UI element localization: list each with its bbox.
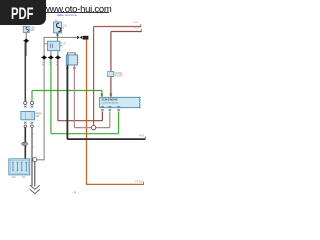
fuse F1 (left, below PDF badge) bbox=[23, 26, 29, 32]
wire: green vertical from dot B down, corner right to ECU pin bbox=[51, 59, 119, 134]
wire: gray riser from junction dot up bbox=[43, 37, 45, 58]
connector pin-pair mark (left col above box B1) bbox=[24, 105, 27, 107]
pin ticks below junction dots bbox=[42, 63, 57, 65]
wire: green horizontal STA line bbox=[32, 90, 102, 92]
svg-text:- 4 -: - 4 - bbox=[72, 191, 78, 195]
svg-text:ST SW: ST SW bbox=[135, 181, 143, 184]
wire: orange long vertical and bottom horizontal with end terminal bbox=[87, 40, 144, 185]
terminal circle left column bbox=[24, 101, 27, 104]
wire: maroon M1 top horizontal with left corner down to junction circle bbox=[94, 27, 141, 126]
PDF badge bbox=[0, 0, 46, 25]
junction dot (diamond) column B green bbox=[48, 55, 54, 60]
header underline bbox=[45, 12, 109, 13]
wire: black from box B3 left pin down, corner right = ground bus bbox=[67, 65, 145, 139]
svg-text:ST: ST bbox=[63, 43, 67, 46]
wire: black column below box B1 to connector box B2 bbox=[24, 128, 26, 159]
connector pin-pair marks at ECU bottom bbox=[101, 109, 104, 111]
junction circle on maroon/pink line bbox=[91, 125, 95, 129]
wire: relay left stub bbox=[44, 43, 48, 45]
splice oval on black column bbox=[22, 142, 28, 145]
svg-text:W-B: W-B bbox=[139, 134, 144, 137]
connector pin-pair marks at ECU top bbox=[101, 93, 104, 95]
wire: gray ground drop from dot down to ground horizontal bbox=[35, 58, 44, 160]
black bus end tick bbox=[144, 137, 146, 140]
pin ticks on dark column bbox=[32, 134, 34, 147]
svg-text:1J 4: 1J 4 bbox=[133, 21, 138, 24]
wire: green right corner down to ECU top bbox=[101, 91, 103, 98]
wire: maroon M2 horizontal, corner down at x=110.9 to noise filter and ECU bbox=[111, 32, 141, 72]
wire: gray horizontal from riser to connector bowtie bbox=[44, 36, 78, 38]
wire: green left corner down to terminal circle bbox=[31, 91, 33, 102]
svg-text:FILTER: FILTER bbox=[115, 74, 123, 77]
wire: maroon column C down, corner right, up into ECU pin 1 bbox=[58, 59, 103, 121]
connector pin-pair mark on stub bbox=[56, 34, 59, 36]
junction dot (diamond) column C maroon bbox=[55, 55, 61, 60]
svg-text:CONT MODULE): CONT MODULE) bbox=[102, 102, 119, 104]
svg-text:EFI: EFI bbox=[30, 28, 34, 32]
svg-text:C12: C12 bbox=[12, 177, 17, 179]
wire: stub below fuse F1 bbox=[25, 33, 27, 57]
connector box B2 (bottom left multi-pin) bbox=[9, 159, 30, 175]
svg-text:1H 5: 1H 5 bbox=[134, 26, 140, 29]
ECU box (engine control module) bbox=[100, 97, 141, 107]
orange end tick bbox=[143, 182, 145, 185]
header small blue subtitle bbox=[57, 13, 77, 17]
svg-text:ECM (ENGINE: ECM (ENGINE bbox=[102, 99, 118, 102]
wire: pink from box B3 right pin down, corner right to junction circle and ECU pin 2 bbox=[74, 65, 109, 128]
component box B3 (ignition switch block) bbox=[66, 55, 79, 65]
wire: dark column right of it down to ground arrow bbox=[31, 128, 33, 187]
wire: relay bottom pins to dots bbox=[51, 51, 58, 56]
wire: stub fuse F2 to relay bbox=[57, 33, 59, 41]
connector pin-pair marks below box B1 bbox=[24, 122, 27, 124]
wire: bridge over box B3 bbox=[67, 53, 75, 55]
wire: M2 continues below filter to ECU top bbox=[110, 77, 112, 97]
connector pin-pair marks below box B3 bbox=[66, 67, 69, 69]
relay right pin dashes bbox=[60, 43, 62, 46]
ground node circle bbox=[33, 158, 37, 162]
ground arrow (double chevron) bbox=[30, 185, 40, 193]
component box B1 (park/neutral switch) bbox=[21, 111, 35, 119]
small terminal circles below box B1 bbox=[24, 125, 27, 128]
wire: left column from fuse F1 down to terminal circle bbox=[24, 43, 26, 102]
junction dot (diamond) column A bbox=[41, 55, 47, 60]
connector bowtie on gray line bbox=[77, 36, 88, 40]
terminal circle green column bbox=[30, 101, 33, 104]
connector pin-pair mark (green col above box B1) bbox=[31, 105, 34, 107]
wire: stem from ground circle down bbox=[34, 162, 36, 187]
fuse F2 (fusible link, S symbol) bbox=[54, 22, 62, 33]
svg-text:IF1: IF1 bbox=[22, 177, 26, 179]
M2 end tick bbox=[140, 29, 142, 32]
junction dot (diamond) below fuse F1 bbox=[23, 38, 29, 43]
M1 end tick bbox=[140, 24, 142, 27]
header: site title bbox=[43, 0, 148, 17]
relay RL1 (starter relay) bbox=[48, 41, 60, 51]
noise filter box on M2 bbox=[108, 72, 114, 77]
